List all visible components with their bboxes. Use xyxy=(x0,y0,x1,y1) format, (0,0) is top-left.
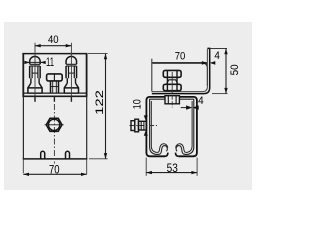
dim 11 (bolt dia) xyxy=(24,57,54,69)
svg-text:122: 122 xyxy=(94,90,106,115)
bottom notch left xyxy=(41,151,45,159)
svg-text:70: 70 xyxy=(175,50,186,62)
stud bolt right (left view) xyxy=(64,56,78,93)
wall top-right rounded corner going down xyxy=(202,63,208,86)
side stud bolt (left of channel) xyxy=(131,119,146,132)
plate bottom line / body top xyxy=(22,95,87,97)
bolt centerlines through studs (extension of 40) xyxy=(34,57,36,97)
stud bolt left (left view) xyxy=(28,56,42,93)
svg-text:10: 10 xyxy=(131,99,143,109)
bolt head inside channel xyxy=(165,96,179,108)
C-channel mid line right + lip curl xyxy=(176,99,194,155)
vertical centerline (dash-dot) left view xyxy=(53,104,55,164)
dim 40 (top left view) xyxy=(35,34,71,56)
wall front (left) edge xyxy=(151,59,153,92)
svg-text:11: 11 xyxy=(46,57,54,69)
dim 4 (plate thickness, middle) with arrow xyxy=(181,95,204,110)
hex boss with hole (left view center) xyxy=(45,118,64,131)
dim 50 (right side) xyxy=(212,49,241,94)
C-channel outer profile xyxy=(146,97,197,156)
body right edge xyxy=(86,96,88,159)
dim 122 (right of left view) xyxy=(88,54,108,159)
svg-text:50: 50 xyxy=(229,64,241,75)
svg-text:53: 53 xyxy=(167,162,178,175)
hanger T-bolt middle (left view) xyxy=(47,74,63,93)
svg-text:70: 70 xyxy=(49,164,60,177)
bracket top edge xyxy=(22,53,87,55)
bracket top box left wall xyxy=(22,53,24,97)
svg-text:4: 4 xyxy=(214,50,220,62)
C-channel inner hem line left xyxy=(151,101,168,152)
bracket top box right wall xyxy=(86,53,88,97)
left slot mouth up-turn xyxy=(165,153,168,157)
plate top line xyxy=(23,92,86,94)
gray panel background xyxy=(4,22,252,190)
dim 70 (top right view) xyxy=(175,50,216,64)
dim 4 (flange thickness, top) xyxy=(207,49,227,67)
C-channel inner hem line right xyxy=(176,101,193,152)
wall top edge + 70 dim line (coincident) xyxy=(152,62,207,64)
right slot mouth up-turn xyxy=(176,153,179,157)
plate top line curving up into flange inner face xyxy=(152,87,207,92)
svg-text:40: 40 xyxy=(48,34,59,46)
svg-text:4: 4 xyxy=(198,95,204,107)
hanger bolt (right view) xyxy=(163,70,181,93)
flange inner face line xyxy=(206,49,208,86)
dim 53 (bottom right view) xyxy=(146,158,197,176)
body left edge xyxy=(22,96,24,159)
dim 70 (bottom left view) xyxy=(23,159,86,176)
stud centerline into channel xyxy=(130,125,158,127)
body bottom edge xyxy=(23,158,88,160)
bolt stub ends below plate xyxy=(35,97,71,102)
dim 10 (stud) xyxy=(131,99,148,136)
bottom notch right xyxy=(66,151,70,159)
plate bottom line curving up into flange outer face xyxy=(152,48,210,93)
C-channel mid line left + lip curl xyxy=(150,99,194,155)
